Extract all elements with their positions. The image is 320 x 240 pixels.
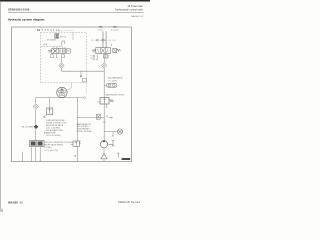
V2 lower block hatch xyxy=(104,55,107,58)
svg-text:2(1): 2(1) xyxy=(113,26,117,28)
gauge cross mark xyxy=(118,130,121,133)
wire valve V1 to left diamond xyxy=(61,58,63,63)
wire outlet valve to tank line xyxy=(76,146,78,161)
shuttle valve left diamond xyxy=(59,63,64,68)
scan bottom-left smudge xyxy=(0,209,3,212)
wire V2 to right diamond xyxy=(103,58,105,63)
manifold divider xyxy=(36,140,38,146)
page background xyxy=(0,0,150,212)
junction circle on riser xyxy=(102,39,104,41)
hydraulic pump circle xyxy=(100,141,107,148)
V2 cell dividers xyxy=(101,48,106,54)
wire pilot bus horizontal xyxy=(62,70,105,72)
V2 lower block xyxy=(103,55,108,58)
drain branch arrowhead xyxy=(80,76,82,78)
V1 crossed arrows xyxy=(53,49,57,53)
svg-text:WA430-6 1/2: WA430-6 1/2 xyxy=(131,15,144,18)
outlet relief valve body xyxy=(73,141,79,146)
svg-text:5 4 5 4 1 1A: 5 4 5 4 1 1A xyxy=(42,29,60,32)
connector from dashed box bottom xyxy=(68,83,72,90)
pump outlet dot xyxy=(103,140,105,142)
lube relief arrow xyxy=(49,109,51,114)
converter outlet drop wire xyxy=(76,98,78,141)
V1 cell divider xyxy=(58,48,60,53)
small mark on wire xyxy=(75,155,76,156)
scan left edge line xyxy=(0,1,2,212)
V2 right spring xyxy=(117,49,121,51)
svg-text:RELIEF VALVE PRESS.: RELIEF VALVE PRESS. xyxy=(44,144,64,147)
gauge branch wire xyxy=(104,131,117,133)
V2 right attachment box xyxy=(113,48,117,52)
manifold leg 2 xyxy=(35,147,37,162)
svg-text:Hydraulic system diagram: Hydraulic system diagram xyxy=(8,17,45,21)
main line relief to pump xyxy=(103,104,105,141)
svg-text:TS 5(25T): TS 5(25T) xyxy=(47,40,56,42)
V1 lower pilot box b xyxy=(61,55,64,58)
main line to relief xyxy=(103,84,105,98)
lube relief drop wire xyxy=(49,98,51,108)
wire strainer to tank line xyxy=(103,159,105,162)
left lube drop wire xyxy=(34,98,36,104)
drain stub xyxy=(22,152,24,162)
mechanical dash-dot link xyxy=(91,39,115,41)
svg-text:OIL COOLER: OIL COOLER xyxy=(22,127,34,129)
gauge drain drop xyxy=(112,132,114,137)
lube bridge wire xyxy=(35,97,77,99)
V1 top stubs xyxy=(54,47,66,49)
svg-text:SEN01801-0108: SEN01801-0108 xyxy=(8,8,30,12)
manifold leg 3 xyxy=(39,147,41,162)
control valve V1 spring (left) xyxy=(48,50,52,53)
accumulator charge circles xyxy=(108,84,111,87)
callout leader dotted line xyxy=(59,29,74,31)
V1 straight arrows xyxy=(60,49,64,53)
pilot dash-dot line xyxy=(41,45,62,47)
V1 lower pilot box a xyxy=(50,55,53,58)
control valve V1 body xyxy=(52,48,65,53)
svg-text:P1: P1 xyxy=(106,116,108,118)
outlet relief right tick xyxy=(79,141,81,144)
scan top edge band xyxy=(0,0,150,1)
V2 crossed arrows xyxy=(101,48,105,52)
right diamond inner orifice xyxy=(103,65,105,67)
drain branch drop xyxy=(80,71,82,75)
lube relief drain diagonal xyxy=(44,115,47,118)
svg-text:To T/C (Set:0.74): To T/C (Set:0.74) xyxy=(44,149,58,152)
svg-text:19: 19 xyxy=(37,28,40,32)
dashed edge continuation xyxy=(86,83,88,95)
relief pilot dash xyxy=(97,101,100,103)
svg-text:Transmission control valve: Transmission control valve xyxy=(115,9,144,12)
shuttle valve right diamond xyxy=(102,63,107,69)
outlet relief left marks xyxy=(71,143,73,145)
diagram outer frame xyxy=(11,27,131,162)
P1 component marks xyxy=(97,115,99,118)
svg-text:MAIN RELIEF 3.2 MPa: MAIN RELIEF 3.2 MPa xyxy=(106,93,124,96)
lube manifold body xyxy=(30,140,44,146)
solenoid TS block xyxy=(55,34,59,39)
manifold leg 1 xyxy=(30,147,32,162)
left diamond inner orifice xyxy=(61,65,63,67)
svg-text:AT FULL STROKE: AT FULL STROKE xyxy=(77,130,93,133)
pump suction wire xyxy=(103,148,105,154)
svg-text:C base: C base xyxy=(98,30,104,32)
check valve diamond xyxy=(33,104,38,109)
control valve V2 spring (left) xyxy=(92,49,96,52)
svg-text:WA430: WA430 xyxy=(8,201,18,205)
P1 branch component xyxy=(96,114,100,119)
svg-text:SEN018 Series: SEN018 Series xyxy=(118,200,141,204)
relief valve arrow xyxy=(103,98,105,103)
P1 branch wire xyxy=(77,117,104,119)
V1 lower drain arrow xyxy=(56,54,58,59)
stub end port circle xyxy=(84,97,86,99)
V1 right attachment block xyxy=(66,49,70,53)
svg-text:P: 1.2 MPa: P: 1.2 MPa xyxy=(108,80,117,82)
bridge stub extension xyxy=(77,97,83,99)
wire right diamond to main line xyxy=(103,68,105,84)
svg-text:B(2.5T): B(2.5T) xyxy=(60,36,67,38)
torque converter circle xyxy=(57,87,67,97)
svg-text:A cushion: A cushion xyxy=(111,29,119,32)
accumulator branch wire xyxy=(104,84,106,86)
check valve ball xyxy=(35,106,37,108)
V1 attachment mark xyxy=(67,50,69,52)
svg-text:SET AT MAIN PUMP: SET AT MAIN PUMP xyxy=(46,129,63,132)
relief drain arrow xyxy=(106,104,108,108)
V2 attachment inner mark xyxy=(114,49,116,52)
accumulator body xyxy=(107,83,117,87)
wire diamond to cooler xyxy=(35,110,37,125)
riser line left xyxy=(102,31,104,47)
riser line right xyxy=(105,31,107,47)
wire cooler to manifold xyxy=(35,129,37,140)
oil cooler symbol xyxy=(34,125,39,129)
pump drive link xyxy=(108,143,113,145)
control valve V2 body xyxy=(96,48,111,54)
relief valve spring xyxy=(109,99,114,102)
main relief valve body xyxy=(100,98,109,104)
pilot valve group dashed enclosure xyxy=(41,32,87,83)
link circle marker xyxy=(96,39,98,41)
pressure gauge circle xyxy=(117,129,122,134)
svg-text:ACCUMULATOR: ACCUMULATOR xyxy=(108,77,123,80)
tank symbol bar xyxy=(122,158,131,160)
P1 branch arrow xyxy=(109,117,112,119)
svg-text:A MAIN PUMP: A MAIN PUMP xyxy=(44,132,57,135)
svg-text:30: 30 xyxy=(20,201,24,205)
manifold dark cell left xyxy=(31,141,36,145)
main line cross tick xyxy=(102,121,106,123)
small port box above xyxy=(82,78,86,81)
svg-text:To T/C (0.74 MPa): To T/C (0.74 MPa) xyxy=(46,135,61,137)
pump drive shaft bar xyxy=(112,140,114,146)
V2 lower drain arrows xyxy=(93,54,98,60)
link end dot xyxy=(111,45,112,46)
header rule xyxy=(8,11,144,14)
outlet relief arrow xyxy=(75,142,77,146)
svg-text:LS B: LS B xyxy=(43,44,48,46)
converter inner gear circles xyxy=(61,89,64,92)
tank tick cross xyxy=(117,153,120,155)
suction strainer triangle xyxy=(101,154,107,159)
pilot hook riser xyxy=(62,41,65,46)
lube relief valve body xyxy=(46,108,52,115)
tank feed tick xyxy=(117,152,119,158)
V2 cell marks xyxy=(97,49,108,53)
pilot drop from box top xyxy=(72,32,74,40)
svg-text:2(1): 2(1) xyxy=(99,26,103,28)
manifold dark cell right xyxy=(38,141,43,145)
wire left diamond drop xyxy=(61,68,63,71)
